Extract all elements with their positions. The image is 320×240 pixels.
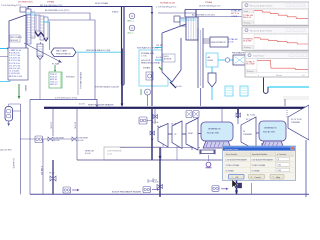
svg-text:BOILER: BOILER bbox=[164, 59, 172, 61]
window edge remnant right bbox=[283, 97, 309, 99]
svg-text:NON RADIOLO LPL MT: NON RADIOLO LPL MT bbox=[137, 47, 159, 50]
svg-text:Help: Help bbox=[276, 177, 280, 179]
power boiler inlet arrows cyan bbox=[155, 45, 164, 70]
svg-text:9487 AC MW: 9487 AC MW bbox=[263, 131, 275, 134]
svg-text:LOW BOILER FEEDWATER: LOW BOILER FEEDWATER bbox=[226, 159, 248, 162]
svg-text:MPR 14.2 GJ/t: MPR 14.2 GJ/t bbox=[9, 75, 23, 78]
svg-text:HIGH PRESSURE HEADER: HIGH PRESSURE HEADER bbox=[88, 103, 114, 106]
svg-text:G 1.1 F 2 t/h: G 1.1 F 2 t/h bbox=[9, 64, 20, 67]
svg-text:100: 100 bbox=[278, 165, 281, 167]
generator G2 bbox=[256, 121, 286, 148]
wire right border vertical bbox=[305, 140, 307, 197]
label DISTRIBUTION stream bbox=[1, 2, 33, 7]
wire HP steam line top bbox=[28, 7, 152, 51]
feedwater heater box bbox=[218, 55, 246, 65]
svg-text:GENERATOR: GENERATOR bbox=[264, 127, 277, 130]
svg-text:100: 100 bbox=[278, 170, 281, 172]
prv row: vertical drops from header bbox=[50, 109, 77, 160]
svg-text:H 0.4 G 1 t/h: H 0.4 G 1 t/h bbox=[9, 67, 20, 70]
svg-text:TOTAL HS: TOTAL HS bbox=[228, 38, 238, 41]
svg-text:Settings: Settings bbox=[244, 46, 251, 49]
dialog box bbox=[223, 146, 296, 181]
wire bfw vertical 1 bbox=[159, 148, 162, 198]
condensate tanks small bbox=[225, 86, 248, 96]
wire below dialog thick drop bbox=[235, 181, 238, 195]
svg-text:BLOWDOWN 0.0 t/h (75'): BLOWDOWN 0.0 t/h (75') bbox=[192, 13, 215, 16]
turbine exhaust drops bbox=[163, 145, 192, 161]
svg-text:7.6 t/h 900 kPag 171'C: 7.6 t/h 900 kPag 171'C bbox=[1, 4, 22, 7]
svg-text:Recovery Boiler Power: Recovery Boiler Power bbox=[250, 29, 273, 32]
svg-text:(16.5 t/h MT): (16.5 t/h MT) bbox=[0, 148, 12, 151]
wire steam line right vertical bbox=[151, 50, 153, 106]
turbine T1 bbox=[158, 124, 168, 148]
wire mid elbow line bbox=[77, 109, 222, 160]
power boiler labels top bbox=[156, 1, 177, 8]
svg-text:18.3 t/h 900 kPag 171'C: 18.3 t/h 900 kPag 171'C bbox=[199, 5, 221, 8]
cursor hourglass bbox=[238, 183, 242, 188]
svg-text:Recovery Boiler Steam: Recovery Boiler Steam bbox=[250, 4, 273, 7]
svg-text:Settings: Settings bbox=[244, 22, 251, 25]
scrubber green box bbox=[49, 65, 62, 88]
svg-text:Minutes: Minutes bbox=[276, 74, 282, 77]
svg-text:RECOVERY: RECOVERY bbox=[11, 37, 23, 39]
svg-text:Variable Linker: Variable Linker bbox=[225, 148, 239, 151]
svg-text:E 1.3 D 2 t/h: E 1.3 D 2 t/h bbox=[9, 59, 20, 62]
svg-text:J 14.28 GJ/t: J 14.28 GJ/t bbox=[9, 72, 20, 75]
svg-text:387.5 t/h: 387.5 t/h bbox=[231, 12, 240, 15]
stack bbox=[112, 7, 124, 85]
line into condenser bbox=[120, 147, 200, 149]
svg-text:2.4 t/h 56% liq 4'C (71'C): 2.4 t/h 56% liq 4'C (71'C) bbox=[55, 96, 77, 99]
svg-text:48 HP STEAM: 48 HP STEAM bbox=[95, 2, 108, 5]
turbine shafts bbox=[168, 133, 201, 136]
wire hp feed thick from boilers bbox=[121, 49, 124, 108]
svg-text:TURBINE: TURBINE bbox=[243, 134, 252, 136]
svg-text:✓: ✓ bbox=[232, 176, 234, 179]
svg-text:PRECIPITATOR: PRECIPITATOR bbox=[211, 41, 226, 44]
lp header drop with valve bbox=[49, 160, 56, 194]
wire flue gas cyan to salt cake bbox=[44, 22, 50, 50]
svg-text:AJC_1: AJC_1 bbox=[128, 32, 135, 35]
feed pump 2 bbox=[143, 179, 160, 193]
svg-text:Specified Variable: Specified Variable bbox=[252, 153, 267, 156]
condensing turbine T5 bbox=[287, 105, 309, 140]
svg-text:LOW PRESSURE: LOW PRESSURE bbox=[107, 151, 122, 153]
svg-text:HEBLB ELECTRIKAL: HEBLB ELECTRIKAL bbox=[141, 62, 161, 65]
loop seal U pipe bbox=[264, 75, 269, 94]
prv valve 2 bbox=[72, 137, 88, 142]
svg-text:0.0 t/h: 0.0 t/h bbox=[107, 152, 112, 155]
svg-text:STEAM: STEAM bbox=[143, 67, 150, 70]
svg-text:12.5 t/h: 12.5 t/h bbox=[50, 122, 53, 129]
salt cake capsule bbox=[51, 48, 76, 57]
svg-text:SMELT: SMELT bbox=[24, 85, 26, 92]
power boiler furnace body bbox=[162, 33, 182, 88]
svg-text:41.7 t/h: 41.7 t/h bbox=[152, 121, 159, 124]
svg-text:0.0 t/h: 0.0 t/h bbox=[79, 103, 85, 106]
svg-text:DRM: DRM bbox=[188, 133, 193, 135]
svg-text:0.4 t/h: 0.4 t/h bbox=[153, 180, 159, 183]
prv valve 1 bbox=[48, 137, 64, 142]
svg-text:4 TML MT: 4 TML MT bbox=[40, 166, 42, 176]
recovery boiler smelt hopper W bbox=[35, 32, 48, 47]
svg-text:9440 AC MW: 9440 AC MW bbox=[207, 132, 219, 135]
svg-text:BLOWDOWN 0.0 t/h (75'C): BLOWDOWN 0.0 t/h (75'C) bbox=[45, 9, 70, 12]
wire right bottom verticals bbox=[261, 143, 263, 146]
trend window 1 bbox=[242, 2, 309, 26]
svg-text:BOILER FEEDWATER HEADER: BOILER FEEDWATER HEADER bbox=[112, 190, 142, 193]
BOILER FEEDWATER HEADER bbox=[30, 190, 309, 194]
trend window 2 bbox=[228, 27, 309, 51]
wire ash diagonal bbox=[24, 43, 62, 63]
svg-text:50 TV CON: 50 TV CON bbox=[291, 119, 302, 121]
trend window 3 bbox=[245, 52, 309, 77]
svg-text:H2O 8.1: H2O 8.1 bbox=[50, 84, 58, 86]
svg-text:BLDN: BLDN bbox=[208, 60, 214, 62]
power boiler drum boxes bbox=[174, 16, 187, 26]
svg-text:0.0 t/h: 0.0 t/h bbox=[54, 139, 60, 142]
recovery boiler furnace wall bbox=[9, 15, 26, 53]
weak liquor line with label bbox=[30, 96, 98, 107]
svg-text:(0.4 t/h MT): (0.4 t/h MT) bbox=[12, 158, 15, 169]
white info box center bbox=[104, 147, 161, 160]
svg-text:0.0 t/h: 0.0 t/h bbox=[156, 56, 162, 59]
label STEAM stream left bbox=[40, 1, 63, 7]
NON RADIOLO label box bbox=[137, 47, 168, 86]
svg-text:Load: Load bbox=[244, 11, 248, 13]
turbine2 inlet bbox=[236, 109, 253, 124]
svg-text:TOTAL % STEAM: TOTAL % STEAM bbox=[252, 164, 266, 167]
condensate return cyan line bbox=[268, 86, 309, 88]
svg-text:STRONG BLACK LIQUOR: STRONG BLACK LIQUOR bbox=[95, 86, 119, 89]
condensate pot icon bbox=[206, 155, 212, 168]
svg-text:1.7 t/h: 1.7 t/h bbox=[141, 55, 147, 58]
vertical feed to header right bbox=[284, 99, 286, 106]
svg-text:STACK: STACK bbox=[112, 11, 119, 14]
wire vertical at 222 bbox=[221, 109, 223, 146]
turbine T3 bbox=[186, 118, 198, 150]
instrument circle VP1 bbox=[127, 13, 135, 22]
svg-text:BOILER: BOILER bbox=[11, 40, 19, 42]
stream data list box bbox=[0, 48, 28, 81]
wire salt cake out cyan bbox=[76, 51, 122, 53]
svg-text:0: 0 bbox=[258, 75, 259, 77]
wire thin vertical right of drop bbox=[251, 183, 253, 194]
feed pump 3 bbox=[212, 186, 229, 192]
label blue left of trend1 bbox=[231, 10, 241, 18]
svg-text:NORMAL BLDN: NORMAL BLDN bbox=[160, 1, 175, 4]
svg-text:FL.GAS: FL.GAS bbox=[52, 63, 60, 66]
power boiler roof slant bbox=[162, 24, 186, 33]
recovery boiler economizer columns bbox=[27, 12, 48, 44]
svg-text:PRECIPITATOR: PRECIPITATOR bbox=[56, 53, 71, 56]
svg-text:AL 7-024: AL 7-024 bbox=[247, 114, 256, 117]
power boiler tube bank bbox=[186, 17, 198, 40]
power boiler rear shaft bbox=[198, 28, 203, 106]
svg-text:0.0 t/h: 0.0 t/h bbox=[85, 152, 91, 155]
svg-text:= Constant: = Constant bbox=[277, 153, 287, 156]
recovery boiler lower shaft bbox=[37, 44, 43, 99]
svg-text:0: 0 bbox=[278, 159, 279, 161]
recovery boiler drum boxes bbox=[20, 7, 31, 15]
condenser pipe symbol bbox=[200, 145, 221, 154]
svg-text:+ DBR 1.4 t/h: + DBR 1.4 t/h bbox=[9, 49, 21, 52]
svg-text:1.7 t/h 900 kPag 171'C: 1.7 t/h 900 kPag 171'C bbox=[156, 5, 177, 8]
svg-text:STRONG BLK LIQ: STRONG BLK LIQ bbox=[79, 72, 81, 89]
svg-text:✗: ✗ bbox=[251, 176, 253, 179]
pump icon row mid bbox=[35, 136, 43, 143]
svg-text:GMD_1: GMD_1 bbox=[127, 21, 135, 23]
svg-text:D 0.4 B 1 t/h: D 0.4 B 1 t/h bbox=[9, 57, 20, 60]
strong black liquor area boundary bbox=[78, 53, 119, 95]
mouse cursor bbox=[232, 180, 238, 189]
svg-text:FEEDWATER: FEEDWATER bbox=[232, 52, 245, 55]
svg-text:F 0.2 E 1 t/h: F 0.2 E 1 t/h bbox=[9, 62, 20, 65]
svg-text:TOTAL % STEAM: TOTAL % STEAM bbox=[226, 164, 240, 167]
svg-text:0.0 t/h: 0.0 t/h bbox=[78, 139, 84, 142]
svg-text:LOW A: LOW A bbox=[231, 15, 238, 18]
svg-text:18.6 MW: 18.6 MW bbox=[243, 41, 251, 43]
valve on bfw line bbox=[153, 178, 163, 189]
wire long verticals left bbox=[20, 100, 72, 195]
pump under label box bbox=[141, 89, 151, 106]
svg-text:LOW BOILER FEEDWATER: LOW BOILER FEEDWATER bbox=[252, 159, 274, 162]
svg-text:DISTRIBUTION: DISTRIBUTION bbox=[18, 2, 33, 4]
svg-text:38.1 MW: 38.1 MW bbox=[246, 64, 254, 66]
HIGH PRESSURE HEADER bbox=[44, 103, 309, 108]
boiler feed vessel left bbox=[5, 104, 21, 126]
svg-text:Cancel: Cancel bbox=[255, 177, 261, 179]
svg-text:LPL MT: LPL MT bbox=[156, 45, 164, 47]
svg-text:TURBINE: TURBINE bbox=[291, 122, 300, 124]
svg-text:1.5 t/h: 1.5 t/h bbox=[228, 41, 234, 44]
svg-text:TOTAL HS: TOTAL HS bbox=[231, 10, 241, 13]
svg-text:0.0 t/h: 0.0 t/h bbox=[176, 85, 182, 88]
svg-text:C 3.1 C 2 t/h: C 3.1 C 2 t/h bbox=[9, 54, 20, 57]
svg-text:% STEAM: % STEAM bbox=[226, 169, 234, 172]
turbine T4 bbox=[241, 117, 256, 150]
svg-text:GENERATOR: GENERATOR bbox=[208, 128, 221, 131]
svg-text:STRONG: STRONG bbox=[66, 77, 75, 79]
turbine inlet valve 1 bbox=[152, 109, 159, 124]
svg-text:B 0.3 A 1 t/h: B 0.3 A 1 t/h bbox=[9, 51, 20, 54]
hp valve station icon bbox=[139, 117, 155, 141]
smelt green arrow bbox=[18, 84, 21, 194]
svg-text:% STEAM: % STEAM bbox=[252, 169, 260, 172]
duct to precipitator right bbox=[203, 37, 228, 47]
instrument circle VP2 bbox=[128, 25, 135, 34]
svg-text:386.4 t/h: 386.4 t/h bbox=[243, 16, 252, 19]
wire power boiler steam lines bbox=[158, 10, 242, 21]
blowdown tank right of boiler bbox=[206, 53, 218, 100]
svg-text:STEAM: STEAM bbox=[47, 1, 54, 4]
feed pump 1 bbox=[63, 187, 80, 193]
svg-text:Free Variable: Free Variable bbox=[226, 153, 237, 156]
generator G1 bbox=[201, 122, 233, 148]
svg-text:0.6: 0.6 bbox=[302, 75, 305, 77]
svg-text:P.LUC: P.LUC bbox=[49, 173, 55, 175]
svg-text:22.6 t/h: 22.6 t/h bbox=[74, 122, 77, 129]
svg-text:SALT CAKE: SALT CAKE bbox=[56, 50, 67, 53]
svg-text:STEAM: STEAM bbox=[205, 1, 212, 4]
svg-text:Settings: Settings bbox=[247, 70, 254, 73]
svg-text:Total Power: Total Power bbox=[253, 54, 265, 57]
wire blowdown line recovery bbox=[36, 9, 95, 99]
wire weak liquor inlet cyan bbox=[0, 47, 9, 56]
turbine T2 bbox=[172, 121, 182, 149]
extraction valve pair bbox=[186, 111, 199, 118]
